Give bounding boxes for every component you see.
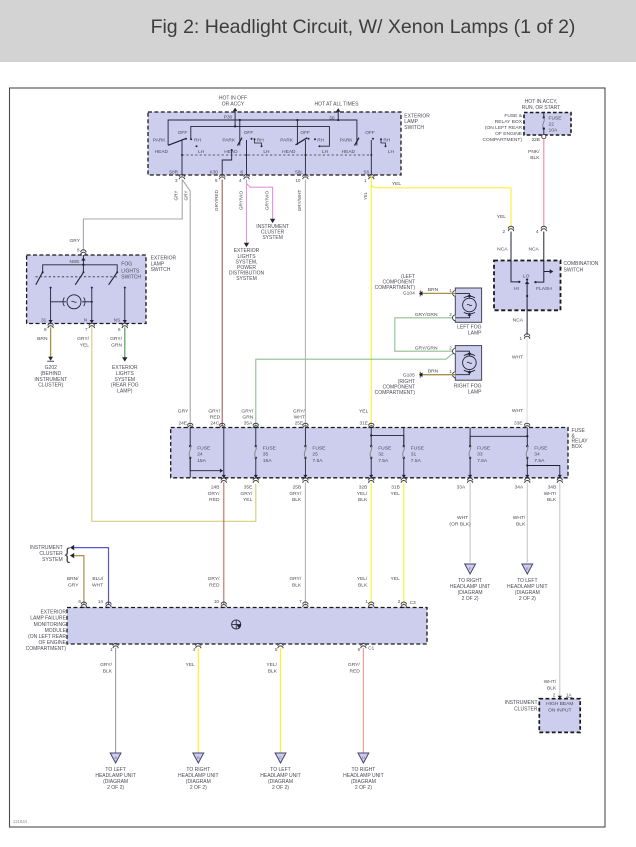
svg-text:WHT: WHT bbox=[294, 415, 305, 421]
svg-text:FUSE: FUSE bbox=[312, 445, 326, 451]
svg-text:OF ENGINE: OF ENGINE bbox=[495, 131, 523, 137]
svg-text:N: N bbox=[84, 318, 87, 323]
svg-text:BLK: BLK bbox=[547, 686, 557, 692]
svg-text:YEL/: YEL/ bbox=[357, 576, 368, 582]
svg-text:4: 4 bbox=[239, 178, 242, 183]
svg-text:GRY/: GRY/ bbox=[240, 491, 253, 497]
svg-text:1: 1 bbox=[110, 647, 113, 652]
svg-text:31: 31 bbox=[41, 318, 47, 323]
svg-text:LH: LH bbox=[388, 149, 395, 155]
svg-text:GRY/: GRY/ bbox=[241, 409, 254, 415]
svg-text:2 OF 2): 2 OF 2) bbox=[519, 596, 536, 602]
svg-text:SWITCH: SWITCH bbox=[564, 267, 584, 273]
svg-text:OFF: OFF bbox=[365, 130, 375, 136]
svg-text:YEL: YEL bbox=[392, 181, 402, 187]
svg-text:FUSE: FUSE bbox=[534, 445, 548, 451]
svg-text:CLUSTER: CLUSTER bbox=[514, 706, 538, 712]
svg-text:ON INPUT: ON INPUT bbox=[548, 708, 571, 714]
svg-text:5: 5 bbox=[215, 178, 218, 183]
svg-text:GRN: GRN bbox=[242, 415, 253, 421]
svg-text:4: 4 bbox=[536, 229, 539, 234]
svg-text:GRY/RED: GRY/RED bbox=[214, 189, 219, 211]
svg-text:LAMP): LAMP) bbox=[117, 388, 133, 394]
svg-text:OFF: OFF bbox=[178, 130, 188, 136]
svg-text:4: 4 bbox=[193, 647, 196, 652]
svg-text:Fig 2: Headlight Circuit, W/ X: Fig 2: Headlight Circuit, W/ Xenon Lamps… bbox=[151, 16, 576, 38]
svg-text:BLK: BLK bbox=[547, 497, 557, 503]
svg-text:(DIAGRAM: (DIAGRAM bbox=[515, 590, 540, 596]
svg-text:24E: 24E bbox=[178, 420, 187, 426]
svg-text:LO: LO bbox=[523, 273, 530, 279]
svg-text:25: 25 bbox=[312, 452, 318, 458]
svg-text:33E: 33E bbox=[514, 420, 523, 426]
svg-text:HEAD: HEAD bbox=[342, 149, 356, 155]
svg-text:(DIAGRAM: (DIAGRAM bbox=[351, 779, 376, 785]
svg-text:SYSTEM: SYSTEM bbox=[262, 235, 283, 241]
svg-text:NCA: NCA bbox=[528, 247, 539, 253]
svg-text:BLK: BLK bbox=[292, 497, 302, 503]
svg-text:K30: K30 bbox=[210, 169, 219, 174]
svg-text:1: 1 bbox=[364, 178, 367, 183]
svg-text:LAMP: LAMP bbox=[468, 389, 482, 395]
svg-text:22B: 22B bbox=[531, 137, 540, 143]
svg-text:1: 1 bbox=[449, 288, 452, 293]
svg-text:RED: RED bbox=[349, 669, 360, 675]
svg-text:FUSE: FUSE bbox=[477, 445, 491, 451]
svg-text:15A: 15A bbox=[263, 458, 272, 464]
svg-text:(DIAGRAM: (DIAGRAM bbox=[186, 779, 211, 785]
svg-text:1: 1 bbox=[519, 336, 522, 341]
svg-text:GRY: GRY bbox=[178, 409, 189, 415]
svg-text:HI: HI bbox=[514, 286, 519, 292]
svg-text:A: A bbox=[114, 755, 117, 760]
svg-text:COMPARTMENT): COMPARTMENT) bbox=[375, 285, 416, 291]
svg-text:WHT: WHT bbox=[92, 582, 103, 588]
svg-text:FOG: FOG bbox=[121, 262, 132, 268]
svg-text:OFF: OFF bbox=[244, 130, 254, 136]
svg-text:2: 2 bbox=[449, 312, 452, 317]
svg-text:C1: C1 bbox=[368, 646, 374, 651]
svg-text:7: 7 bbox=[85, 327, 88, 332]
svg-text:YEL: YEL bbox=[185, 662, 195, 668]
svg-text:7.5A: 7.5A bbox=[477, 458, 488, 464]
svg-text:GRY/: GRY/ bbox=[289, 491, 302, 497]
svg-text:GRY/: GRY/ bbox=[208, 491, 221, 497]
svg-text:2: 2 bbox=[449, 346, 452, 351]
svg-text:E: E bbox=[526, 566, 529, 571]
svg-text:NCA: NCA bbox=[513, 317, 524, 323]
svg-text:SWITCH: SWITCH bbox=[121, 275, 141, 281]
svg-text:2 OF 2): 2 OF 2) bbox=[190, 785, 207, 791]
svg-text:GRY/GRN: GRY/GRN bbox=[415, 312, 438, 318]
svg-text:P30: P30 bbox=[224, 114, 233, 120]
svg-text:GRY: GRY bbox=[69, 238, 80, 244]
svg-text:G105: G105 bbox=[403, 373, 415, 379]
svg-text:PARK: PARK bbox=[153, 138, 167, 144]
svg-text:PARK: PARK bbox=[280, 138, 294, 144]
svg-text:MONITORING: MONITORING bbox=[34, 622, 67, 628]
svg-text:HEAD: HEAD bbox=[282, 149, 296, 155]
svg-text:9: 9 bbox=[44, 327, 47, 332]
svg-text:31: 31 bbox=[411, 452, 417, 458]
svg-text:GRY/: GRY/ bbox=[208, 576, 221, 582]
svg-text:NS: NS bbox=[114, 318, 120, 323]
svg-text:YEL: YEL bbox=[391, 491, 401, 497]
svg-text:WHT/: WHT/ bbox=[513, 515, 526, 521]
svg-text:BLK: BLK bbox=[268, 669, 278, 675]
svg-text:BRN: BRN bbox=[428, 287, 439, 293]
svg-text:GRY: GRY bbox=[183, 191, 188, 201]
svg-text:14: 14 bbox=[98, 599, 104, 604]
svg-text:24C: 24C bbox=[210, 420, 219, 426]
svg-text:6: 6 bbox=[358, 647, 361, 652]
svg-text:BRN: BRN bbox=[37, 336, 48, 342]
svg-text:33: 33 bbox=[477, 452, 483, 458]
svg-text:D: D bbox=[362, 755, 365, 760]
svg-text:S8R: S8R bbox=[169, 169, 179, 174]
svg-text:FUSE: FUSE bbox=[263, 445, 277, 451]
svg-text:GRY/VIO: GRY/VIO bbox=[265, 191, 270, 210]
svg-text:RH: RH bbox=[317, 138, 324, 144]
svg-text:2 OF 2): 2 OF 2) bbox=[272, 785, 289, 791]
svg-text:RH: RH bbox=[194, 138, 201, 144]
svg-text:RUN, OR START: RUN, OR START bbox=[522, 105, 560, 111]
svg-text:BOX: BOX bbox=[572, 444, 583, 450]
svg-text:YEL: YEL bbox=[359, 409, 369, 415]
svg-text:WHT: WHT bbox=[457, 515, 468, 521]
svg-text:WHT/: WHT/ bbox=[544, 679, 557, 685]
svg-text:LIGHTS: LIGHTS bbox=[121, 268, 140, 274]
svg-text:FUSE &: FUSE & bbox=[504, 113, 522, 119]
svg-text:C3: C3 bbox=[410, 600, 416, 605]
svg-text:RED: RED bbox=[209, 582, 220, 588]
svg-text:34A: 34A bbox=[515, 484, 524, 490]
svg-text:HOT IN ACCY,: HOT IN ACCY, bbox=[525, 99, 558, 105]
svg-text:FUSE: FUSE bbox=[549, 116, 563, 122]
svg-text:(OR BLK): (OR BLK) bbox=[449, 521, 471, 527]
svg-text:SYSTEM: SYSTEM bbox=[42, 557, 63, 563]
svg-text:GRN: GRN bbox=[111, 342, 122, 348]
svg-text:1: 1 bbox=[449, 369, 452, 374]
svg-text:(DIAGRAM: (DIAGRAM bbox=[268, 779, 293, 785]
svg-text:10: 10 bbox=[295, 178, 301, 183]
svg-text:COMPARTMENT): COMPARTMENT) bbox=[483, 137, 523, 143]
svg-text:BLK: BLK bbox=[516, 521, 526, 527]
svg-text:LH: LH bbox=[322, 149, 329, 155]
svg-text:35E: 35E bbox=[244, 484, 253, 490]
svg-text:C: C bbox=[279, 755, 282, 760]
svg-text:2 OF 2): 2 OF 2) bbox=[355, 785, 372, 791]
svg-text:5: 5 bbox=[275, 647, 278, 652]
svg-text:YEL: YEL bbox=[497, 214, 507, 220]
svg-text:WHT: WHT bbox=[512, 355, 523, 361]
svg-text:HOT AT ALL TIMES: HOT AT ALL TIMES bbox=[315, 102, 360, 108]
svg-text:S8L: S8L bbox=[295, 169, 304, 174]
svg-text:GRY: GRY bbox=[174, 191, 179, 201]
svg-text:15A: 15A bbox=[197, 458, 206, 464]
svg-text:2: 2 bbox=[502, 229, 505, 234]
svg-text:34: 34 bbox=[534, 452, 540, 458]
svg-text:G104: G104 bbox=[403, 291, 415, 297]
svg-text:24: 24 bbox=[197, 452, 203, 458]
svg-text:YEL: YEL bbox=[391, 576, 401, 582]
svg-text:35: 35 bbox=[263, 452, 269, 458]
svg-text:31E: 31E bbox=[359, 420, 368, 426]
svg-text:SWITCH: SWITCH bbox=[404, 125, 424, 131]
svg-text:GRY/GRN: GRY/GRN bbox=[415, 346, 438, 352]
svg-text:10: 10 bbox=[214, 599, 220, 604]
svg-text:YEL/: YEL/ bbox=[357, 491, 368, 497]
svg-text:B: B bbox=[197, 755, 200, 760]
svg-text:BLK: BLK bbox=[358, 582, 368, 588]
svg-text:(DIAGRAM: (DIAGRAM bbox=[458, 590, 483, 596]
svg-text:7: 7 bbox=[299, 599, 302, 604]
svg-text:OFF: OFF bbox=[300, 130, 310, 136]
svg-text:35A: 35A bbox=[244, 420, 253, 426]
svg-text:3: 3 bbox=[175, 178, 178, 183]
svg-text:SWITCH: SWITCH bbox=[151, 267, 171, 273]
svg-text:WHT: WHT bbox=[512, 408, 523, 414]
svg-text:YEL: YEL bbox=[243, 497, 253, 503]
svg-text:FUSE: FUSE bbox=[197, 445, 211, 451]
svg-text:EXTERIOR: EXTERIOR bbox=[40, 610, 66, 616]
svg-text:COMPARTMENT): COMPARTMENT) bbox=[26, 646, 67, 652]
svg-text:GRY/VIO: GRY/VIO bbox=[238, 191, 243, 210]
svg-text:1: 1 bbox=[365, 599, 368, 604]
svg-text:24B: 24B bbox=[211, 484, 220, 490]
svg-text:(DIAGRAM: (DIAGRAM bbox=[103, 779, 128, 785]
svg-text:OR ACCY: OR ACCY bbox=[222, 101, 245, 107]
svg-text:MODULE: MODULE bbox=[45, 628, 67, 634]
svg-text:S6: S6 bbox=[363, 169, 369, 174]
svg-text:YEL: YEL bbox=[363, 191, 368, 200]
svg-text:RED: RED bbox=[210, 415, 221, 421]
svg-text:RED: RED bbox=[209, 497, 220, 503]
svg-text:25E: 25E bbox=[295, 420, 304, 426]
svg-text:32B: 32B bbox=[359, 484, 368, 490]
svg-text:GRY/WHT: GRY/WHT bbox=[297, 190, 302, 212]
svg-text:LH: LH bbox=[263, 149, 270, 155]
svg-text:FUSE: FUSE bbox=[378, 445, 392, 451]
svg-text:10A: 10A bbox=[549, 128, 558, 134]
svg-text:YEL: YEL bbox=[80, 342, 90, 348]
svg-text:7.5A: 7.5A bbox=[312, 458, 323, 464]
svg-text:BLU/: BLU/ bbox=[92, 576, 104, 582]
svg-text:7.5A: 7.5A bbox=[411, 458, 422, 464]
svg-text:(ON LEFT REAR: (ON LEFT REAR bbox=[485, 125, 523, 131]
svg-text:HIGH BEAM: HIGH BEAM bbox=[546, 701, 573, 707]
svg-text:GRY/: GRY/ bbox=[110, 336, 123, 342]
svg-text:NSE: NSE bbox=[69, 259, 80, 265]
svg-text:22: 22 bbox=[549, 122, 555, 128]
svg-text:32: 32 bbox=[378, 452, 384, 458]
svg-text:PARK: PARK bbox=[340, 138, 354, 144]
svg-text:GRY/: GRY/ bbox=[293, 409, 306, 415]
svg-text:{: { bbox=[65, 545, 71, 564]
svg-text:6: 6 bbox=[118, 327, 121, 332]
svg-text:BRN: BRN bbox=[428, 369, 439, 375]
svg-text:LAMP FAILURE: LAMP FAILURE bbox=[30, 616, 66, 622]
svg-text:COMPARTMENT): COMPARTMENT) bbox=[375, 390, 416, 396]
svg-text:(ON LEFT REAR: (ON LEFT REAR bbox=[28, 634, 66, 640]
svg-text:GRY/: GRY/ bbox=[289, 576, 302, 582]
svg-text:FUSE: FUSE bbox=[411, 445, 425, 451]
svg-text:LH: LH bbox=[198, 149, 205, 155]
svg-text:2: 2 bbox=[553, 692, 556, 697]
svg-text:CLUSTER): CLUSTER) bbox=[38, 383, 63, 389]
svg-text:RELAY BOX: RELAY BOX bbox=[495, 119, 523, 125]
svg-text:GRY/: GRY/ bbox=[348, 662, 361, 668]
svg-text:2 OF 2): 2 OF 2) bbox=[107, 785, 124, 791]
svg-text:BRN/: BRN/ bbox=[67, 576, 79, 582]
svg-text:BLK: BLK bbox=[292, 582, 302, 588]
svg-text:GRY/: GRY/ bbox=[208, 409, 221, 415]
svg-text:1A: 1A bbox=[566, 692, 573, 697]
svg-text:NCA: NCA bbox=[497, 247, 508, 253]
svg-text:WHT/: WHT/ bbox=[544, 491, 557, 497]
svg-text:YEL/: YEL/ bbox=[266, 662, 277, 668]
svg-text:34B: 34B bbox=[548, 484, 557, 490]
svg-text:OF ENGINE: OF ENGINE bbox=[38, 640, 66, 646]
svg-text:8: 8 bbox=[77, 248, 80, 253]
svg-text:121844: 121844 bbox=[13, 819, 28, 824]
svg-text:25B: 25B bbox=[293, 484, 302, 490]
svg-text:GRY/: GRY/ bbox=[77, 336, 90, 342]
svg-text:SYSTEM: SYSTEM bbox=[236, 276, 257, 282]
svg-text:7.5A: 7.5A bbox=[378, 458, 389, 464]
svg-text:PNK/: PNK/ bbox=[528, 149, 540, 155]
svg-text:COMBINATION: COMBINATION bbox=[564, 261, 599, 267]
svg-text:LAMP: LAMP bbox=[468, 330, 482, 336]
svg-text:HEAD: HEAD bbox=[155, 149, 169, 155]
svg-text:BLK: BLK bbox=[358, 497, 368, 503]
svg-text:7.5A: 7.5A bbox=[534, 458, 545, 464]
svg-text:2: 2 bbox=[398, 599, 401, 604]
svg-text:INSTRUMENT: INSTRUMENT bbox=[505, 700, 538, 706]
svg-text:33A: 33A bbox=[457, 484, 466, 490]
svg-text:FLASH: FLASH bbox=[536, 286, 552, 292]
svg-text:BLK: BLK bbox=[103, 669, 113, 675]
svg-text:BLK: BLK bbox=[530, 155, 540, 161]
svg-text:2 OF 2): 2 OF 2) bbox=[462, 596, 479, 602]
svg-text:GRY/: GRY/ bbox=[100, 662, 113, 668]
svg-text:31B: 31B bbox=[391, 484, 400, 490]
svg-text:PARK: PARK bbox=[222, 138, 236, 144]
svg-text:GRY: GRY bbox=[68, 582, 79, 588]
